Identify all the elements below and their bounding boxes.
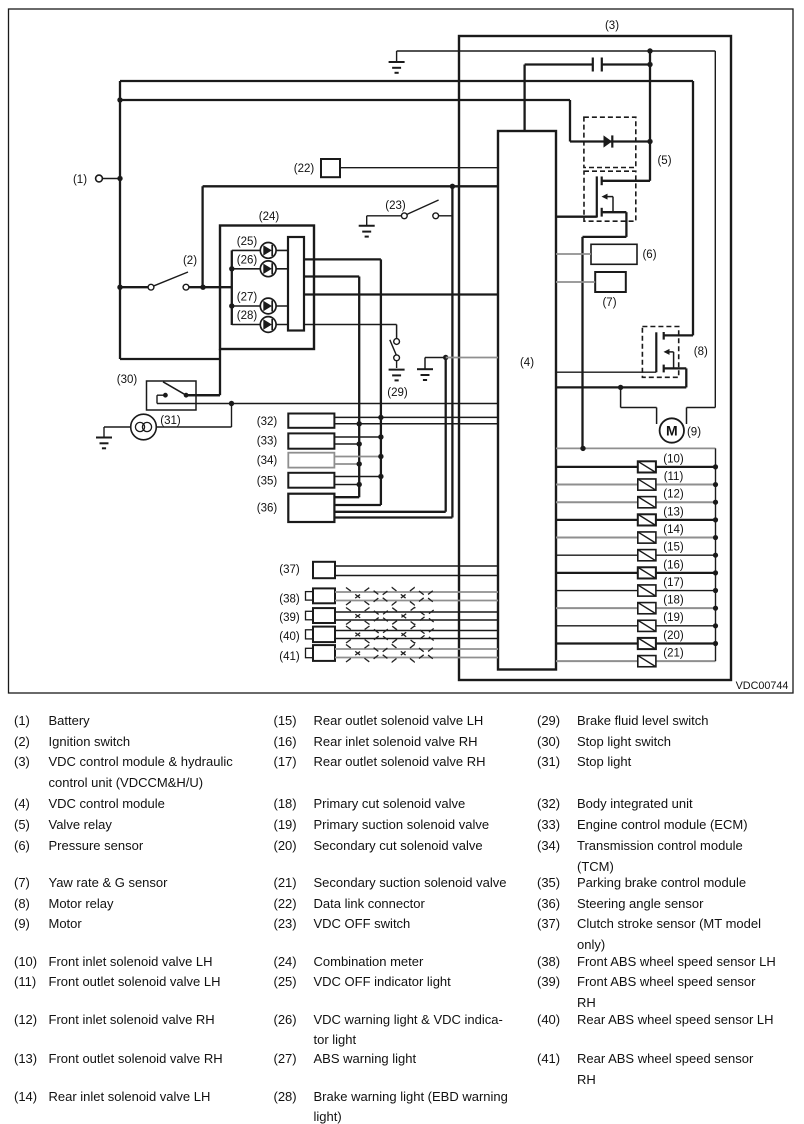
- svg-text:(29): (29): [387, 387, 408, 399]
- svg-text:(16): (16): [663, 559, 684, 571]
- svg-text:(20): (20): [663, 630, 684, 642]
- svg-text:(39): (39): [279, 612, 300, 624]
- svg-text:(15): (15): [663, 542, 684, 554]
- svg-text:(26): (26): [237, 254, 258, 266]
- svg-text:(31): (31): [160, 415, 181, 427]
- svg-text:(36): (36): [257, 503, 278, 515]
- svg-text:(1): (1): [73, 174, 87, 186]
- svg-text:(27): (27): [237, 292, 258, 304]
- svg-text:M: M: [666, 423, 678, 439]
- svg-text:(21): (21): [663, 648, 684, 660]
- svg-text:VDC00744: VDC00744: [736, 680, 789, 692]
- svg-text:(30): (30): [117, 374, 138, 386]
- svg-text:(4): (4): [520, 357, 534, 369]
- svg-text:(2): (2): [183, 255, 197, 267]
- svg-text:(24): (24): [259, 211, 280, 223]
- svg-text:(9): (9): [687, 427, 701, 439]
- svg-text:(32): (32): [257, 416, 278, 428]
- svg-text:(37): (37): [279, 564, 300, 576]
- svg-text:(6): (6): [642, 249, 656, 261]
- svg-text:(38): (38): [279, 594, 300, 606]
- svg-text:(33): (33): [257, 436, 278, 448]
- svg-text:(41): (41): [279, 651, 300, 663]
- svg-text:(19): (19): [663, 612, 684, 624]
- svg-text:(40): (40): [279, 631, 300, 643]
- svg-text:(5): (5): [657, 155, 671, 167]
- svg-text:(34): (34): [257, 455, 278, 467]
- svg-text:(8): (8): [694, 346, 708, 358]
- svg-text:(14): (14): [663, 524, 684, 536]
- svg-text:(18): (18): [663, 595, 684, 607]
- svg-text:(13): (13): [663, 506, 684, 518]
- svg-text:(11): (11): [664, 471, 684, 483]
- svg-text:(28): (28): [237, 310, 258, 322]
- svg-text:(17): (17): [663, 577, 684, 589]
- svg-text:(23): (23): [385, 200, 406, 212]
- svg-text:(7): (7): [602, 297, 616, 309]
- svg-text:(3): (3): [605, 20, 619, 32]
- svg-text:(10): (10): [663, 453, 684, 465]
- svg-text:(12): (12): [663, 489, 684, 501]
- svg-text:(22): (22): [294, 163, 315, 175]
- svg-text:(25): (25): [237, 236, 258, 248]
- svg-text:(35): (35): [257, 476, 278, 488]
